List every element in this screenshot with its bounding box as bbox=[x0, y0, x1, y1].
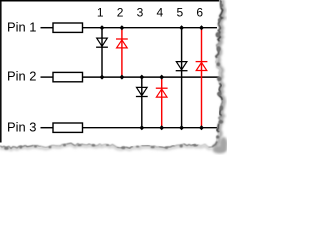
junction Pin2/column 1 bbox=[100, 75, 105, 80]
svg-text:1: 1 bbox=[97, 6, 104, 20]
wire column 2 (Pin1 to Pin2) bbox=[121, 28, 123, 77]
LED D4 (red, cathode up, column 4) bbox=[156, 88, 168, 97]
border: left frame edge bbox=[0, 0, 2, 143]
junction Pin3/column 6 bbox=[199, 125, 204, 130]
wire Pin 2 lead bbox=[41, 76, 54, 78]
wire Pin 3 rail bbox=[83, 127, 218, 129]
svg-text:Pin 1: Pin 1 bbox=[7, 19, 36, 34]
svg-text:5: 5 bbox=[176, 6, 183, 20]
svg-text:2: 2 bbox=[117, 6, 124, 20]
wire column 6 (Pin1 to Pin3, crosses Pin2) bbox=[201, 28, 203, 128]
LED D3 (black, cathode down, column 3) bbox=[136, 87, 148, 96]
junction Pin1/column 5 bbox=[179, 25, 184, 30]
wire column 1 (Pin1 to Pin2) bbox=[101, 28, 103, 77]
junction Pin3/column 3 bbox=[139, 125, 144, 130]
junction Pin1/column 2 bbox=[119, 25, 124, 30]
torn paper edge (right) bbox=[212, 0, 224, 147]
svg-text:4: 4 bbox=[157, 6, 164, 20]
svg-text:6: 6 bbox=[196, 6, 203, 20]
resistor R1 bbox=[53, 23, 83, 32]
wire column 3 (Pin2 to Pin3) bbox=[141, 77, 143, 128]
resistor R3 bbox=[53, 123, 83, 132]
junction Pin1/column 6 bbox=[199, 25, 204, 30]
svg-text:Pin 2: Pin 2 bbox=[7, 69, 36, 84]
LED D5 (black, cathode down, column 5) bbox=[176, 62, 188, 71]
junction Pin3/column 4 bbox=[159, 125, 164, 130]
torn paper edge (bottom) bbox=[0, 143, 212, 150]
LED D6 (red, cathode up, column 6) bbox=[196, 62, 208, 71]
wire column 4 (Pin2 to Pin3) bbox=[161, 77, 163, 128]
resistor R2 bbox=[53, 72, 83, 81]
wire Pin 1 lead bbox=[41, 27, 54, 29]
LED D1 (black, cathode down, column 1) bbox=[96, 38, 108, 47]
junction Pin2/column 4 bbox=[159, 75, 164, 80]
LED D2 (red, cathode up, column 2) bbox=[116, 39, 128, 48]
junction Pin1/column 1 bbox=[100, 25, 105, 30]
torn paper corner shadow (bottom-right) bbox=[213, 137, 228, 154]
wire Pin 2 rail bbox=[83, 76, 220, 78]
wire Pin 3 lead bbox=[41, 127, 54, 129]
svg-text:Pin 3: Pin 3 bbox=[7, 119, 36, 134]
svg-text:3: 3 bbox=[137, 6, 144, 20]
junction Pin2/column 3 bbox=[139, 75, 144, 80]
junction Pin2/column 2 bbox=[119, 75, 124, 80]
wire Pin 1 rail bbox=[83, 27, 218, 29]
wire column 5 (Pin1 to Pin3, crosses Pin2) bbox=[181, 28, 183, 128]
border: top frame edge bbox=[0, 0, 219, 2]
junction Pin3/column 5 bbox=[179, 125, 184, 130]
